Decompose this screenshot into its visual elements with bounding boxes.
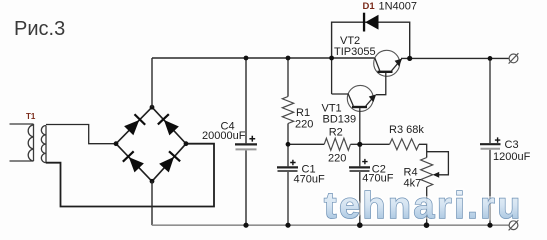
capacitor C3 plates xyxy=(480,143,501,145)
wire: primary top lead xyxy=(10,123,34,125)
svg-text:470uF: 470uF xyxy=(294,173,325,185)
transistor VT1 base lead xyxy=(359,108,361,144)
node: bridge top vertex xyxy=(150,105,155,110)
svg-text:tehnari.ru: tehnari.ru xyxy=(324,184,523,226)
svg-text:220: 220 xyxy=(328,153,346,165)
resistor R4 lead bottom xyxy=(426,187,428,225)
capacitor C4 plates xyxy=(235,143,257,145)
node: VT1 base / C2 / R3 mid junction xyxy=(357,142,362,147)
svg-text:R3 68k: R3 68k xyxy=(389,124,424,136)
svg-text:Рис.3: Рис.3 xyxy=(14,18,65,40)
capacitor C4 branch wire (bottom) xyxy=(245,150,247,225)
node: D1 cathode / VT2 emitter junction xyxy=(407,56,412,61)
resistor R1 lead bottom xyxy=(287,124,289,145)
wire: R2 to VT1 base node xyxy=(351,143,360,145)
wire: bridge bottom vertex to ground bus xyxy=(151,181,153,225)
watermark tehnari.ru xyxy=(324,184,523,226)
bridge rectifier diode (bottom-to-right) xyxy=(158,150,180,173)
wire: VT1 collector to rail junction xyxy=(331,58,333,94)
transistor VT1 emitter arrowhead xyxy=(369,94,376,102)
resistor R2 zigzag xyxy=(324,138,350,150)
capacitor C4 polarity plus xyxy=(249,136,255,142)
node: C3 top junction xyxy=(488,56,493,61)
capacitor C3 polarity plus xyxy=(495,137,500,142)
transformer T1 secondary winding xyxy=(41,126,46,163)
output terminal negative xyxy=(509,221,518,230)
bridge diamond wires xyxy=(116,107,186,181)
resistor R1 lead top xyxy=(287,58,289,97)
capacitor C1 polarity plus xyxy=(290,160,295,165)
svg-text:20000uF: 20000uF xyxy=(202,130,246,142)
resistor R4 zigzag (potentiometer) xyxy=(421,158,433,188)
capacitor C2 branch wire (bottom) xyxy=(359,172,361,225)
svg-text:BD139: BD139 xyxy=(323,114,357,126)
node: R1/C1/R2 mid junction xyxy=(286,142,291,147)
transistor VT2 base wire down to VT1 emitter xyxy=(376,73,386,95)
node: R1 top junction xyxy=(286,56,291,61)
capacitor C4 branch wire (top) xyxy=(245,58,247,143)
node: bridge bottom vertex xyxy=(150,179,155,184)
transistor VT2 emitter arrowhead xyxy=(395,59,402,67)
diode D1 symbol xyxy=(365,15,378,30)
capacitor C2 polarity plus xyxy=(362,159,367,164)
wire: VT1 base node to R3 xyxy=(360,143,390,145)
svg-text:TIP3055: TIP3055 xyxy=(334,46,376,58)
node: D1 anode / VT1 collector junction xyxy=(329,56,334,61)
svg-text:D1: D1 xyxy=(363,1,376,12)
wire: primary bottom lead xyxy=(10,160,34,162)
capacitor C1 branch wire (bottom) xyxy=(287,172,289,225)
svg-text:R2: R2 xyxy=(329,127,343,139)
output terminal positive xyxy=(509,54,518,63)
svg-text:1N4007: 1N4007 xyxy=(379,0,418,12)
wire: positive rail (output, right segment) xyxy=(401,57,509,59)
node: C4 ground junction xyxy=(243,223,248,228)
node: C2 ground junction xyxy=(357,222,363,228)
transistor VT1 circle xyxy=(347,85,373,111)
capacitor C3 branch wire (bottom) xyxy=(489,150,491,226)
transistor VT2 collector lead xyxy=(375,58,380,71)
bridge rectifier diode (left-to-top) xyxy=(123,113,146,136)
transistor VT1 collector lead xyxy=(332,94,354,106)
capacitor C1 plates xyxy=(277,166,298,168)
transistor VT2 circle xyxy=(374,50,400,76)
svg-text:R1: R1 xyxy=(296,107,310,119)
node: bridge right vertex xyxy=(184,141,189,146)
wire: bridge top vertex to positive rail xyxy=(151,58,153,107)
wire: secondary top lead to bridge left vertex xyxy=(46,125,116,144)
transistor VT2 emitter lead xyxy=(392,59,402,71)
wire: mid bus R1 node to R2 xyxy=(288,143,324,145)
capacitor C1 branch wire (top) xyxy=(287,144,289,166)
wire: positive rail (unregulated, left segment) xyxy=(152,57,375,59)
bridge rectifier diode (bottom-to-left) xyxy=(122,151,145,174)
node: C4 top junction xyxy=(244,56,249,61)
resistor R1 zigzag xyxy=(282,97,293,124)
transistor VT2 base bar xyxy=(378,71,393,73)
transistor VT1 base bar xyxy=(352,106,367,108)
svg-text:C3: C3 xyxy=(505,139,519,151)
transistor VT1 emitter lead xyxy=(366,96,375,106)
svg-text:220: 220 xyxy=(295,118,313,130)
diode D1 loop wire xyxy=(332,22,410,58)
capacitor C2 branch wire (top) xyxy=(359,144,361,166)
resistor R3 zigzag xyxy=(390,139,419,150)
svg-text:T1: T1 xyxy=(26,112,36,121)
svg-text:470uF: 470uF xyxy=(362,173,393,185)
wire: secondary bottom lead to bridge right vertex xyxy=(46,144,214,207)
capacitor C3 branch wire (top) xyxy=(489,58,491,143)
svg-text:1200uF: 1200uF xyxy=(493,151,531,163)
capacitor C2 plates xyxy=(349,166,370,168)
node: C1 ground junction xyxy=(285,223,290,228)
wire: R4 wiper loop xyxy=(427,152,449,175)
R4 wiper arrowhead xyxy=(433,172,440,178)
transformer T1 primary winding xyxy=(28,124,33,161)
wire: ground bus (bottom) xyxy=(152,224,509,226)
wire: R3 to R4 top corner xyxy=(419,144,427,157)
node: bridge left vertex xyxy=(114,141,119,146)
bridge rectifier diode (right-to-top) xyxy=(157,113,179,136)
node: C3 ground junction xyxy=(487,223,492,228)
node: R4 ground junction xyxy=(424,222,430,228)
